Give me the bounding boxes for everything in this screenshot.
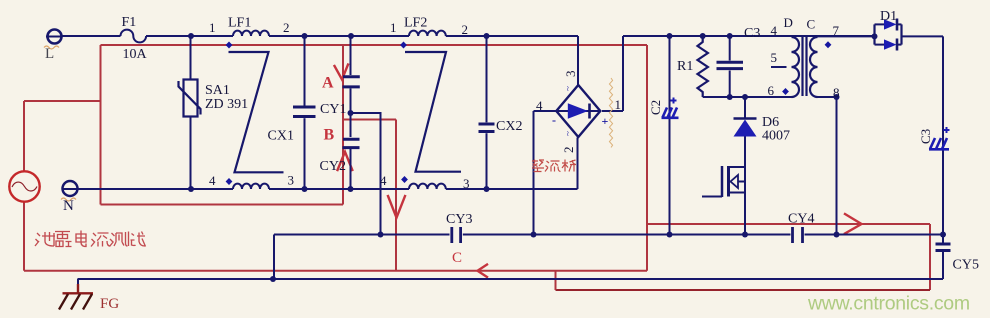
svg-text:LF2: LF2: [404, 16, 427, 31]
svg-text:C3: C3: [918, 129, 933, 144]
svg-text:7: 7: [833, 23, 840, 38]
svg-text:D: D: [784, 15, 793, 30]
svg-text:CY2: CY2: [320, 159, 346, 174]
svg-text:SA1: SA1: [205, 83, 230, 98]
svg-text:B: B: [324, 127, 335, 144]
svg-text:2: 2: [561, 147, 576, 154]
svg-text:1: 1: [390, 20, 397, 35]
svg-text:CY4: CY4: [788, 212, 814, 227]
svg-text:1: 1: [615, 97, 622, 112]
svg-text:C: C: [807, 17, 816, 32]
svg-text:CY3: CY3: [446, 212, 472, 227]
svg-text:4007: 4007: [762, 129, 790, 144]
svg-text:C: C: [452, 250, 462, 266]
svg-text:~: ~: [563, 131, 573, 136]
svg-text:5: 5: [771, 50, 778, 65]
svg-text:1: 1: [209, 20, 216, 35]
svg-text:F1: F1: [122, 15, 137, 30]
svg-text:R1: R1: [677, 59, 693, 74]
svg-text:4: 4: [536, 98, 543, 113]
svg-text:LF1: LF1: [228, 16, 251, 31]
svg-text:www.cntronics.com: www.cntronics.com: [807, 293, 970, 315]
svg-text:2: 2: [462, 22, 469, 37]
svg-text:2: 2: [283, 20, 290, 35]
svg-text:CY1: CY1: [320, 102, 346, 117]
svg-text:CY5: CY5: [953, 258, 979, 273]
svg-text:4: 4: [380, 173, 387, 188]
svg-text:8: 8: [833, 85, 840, 100]
svg-text:C2: C2: [648, 100, 663, 115]
svg-text:N: N: [63, 198, 74, 214]
svg-text:4: 4: [771, 23, 778, 38]
svg-text:CX2: CX2: [496, 119, 522, 134]
svg-text:3: 3: [463, 176, 470, 191]
svg-text:10A: 10A: [123, 47, 148, 62]
svg-text:+: +: [602, 114, 609, 128]
svg-text:~: ~: [563, 86, 573, 91]
svg-text:L: L: [45, 46, 54, 62]
svg-text:D1: D1: [880, 9, 897, 24]
svg-text:6: 6: [768, 83, 775, 98]
svg-text:CX1: CX1: [268, 129, 294, 144]
svg-text:ZD 391: ZD 391: [205, 97, 248, 112]
svg-text:3: 3: [288, 173, 295, 188]
svg-text:FG: FG: [100, 296, 119, 312]
svg-text:-: -: [552, 113, 556, 127]
svg-text:A: A: [322, 75, 334, 92]
svg-text:3: 3: [563, 71, 578, 78]
svg-text:C3: C3: [744, 26, 760, 41]
svg-text:4: 4: [209, 173, 216, 188]
